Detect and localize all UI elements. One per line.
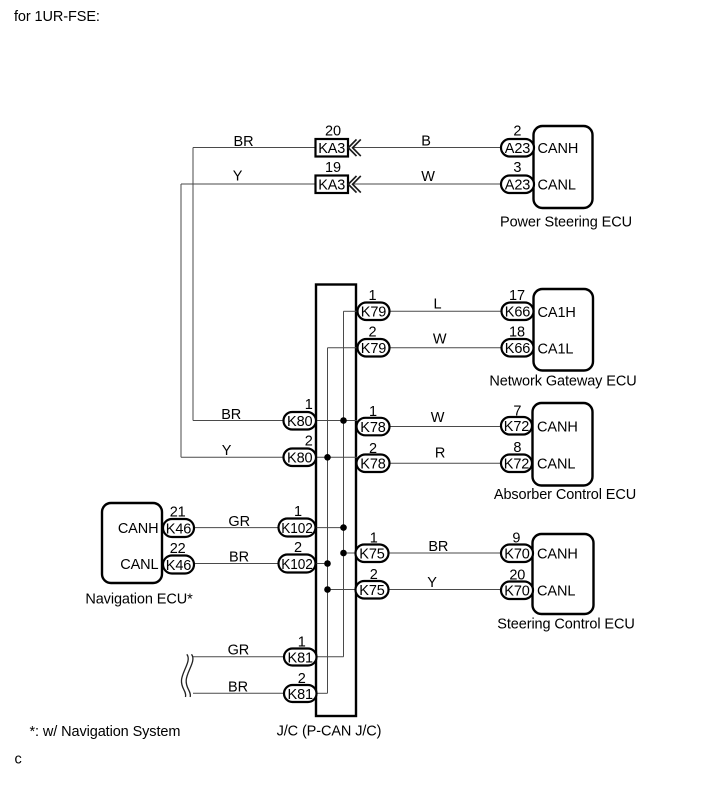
svg-text:K80: K80: [287, 451, 313, 467]
svg-text:W: W: [431, 410, 445, 426]
wire Y vertical drop (to J/C K80-2 row): [180, 184, 182, 457]
svg-text:7: 7: [513, 404, 521, 420]
svg-text:CA1L: CA1L: [538, 342, 574, 358]
connector K78 pin 1: [357, 418, 390, 436]
wire R (K78-2 to K72-8): [390, 462, 502, 464]
connector K78 pin 2: [357, 455, 390, 473]
svg-text:K66: K66: [505, 341, 531, 357]
pin number 1 above K79: [369, 288, 377, 304]
svg-text:2: 2: [370, 567, 378, 583]
svg-text:Y: Y: [427, 575, 437, 591]
svg-text:K66: K66: [505, 305, 531, 321]
svg-text:BR: BR: [221, 407, 241, 423]
svg-text:22: 22: [170, 541, 186, 557]
svg-text:2: 2: [294, 540, 302, 556]
svg-text:K70: K70: [504, 584, 530, 600]
pin label CANL (Power Steering ECU): [538, 178, 576, 194]
caption Steering Control ECU: [497, 616, 634, 632]
pin number 1 above K81: [298, 635, 306, 651]
wire color label B (to A23-2): [421, 134, 431, 150]
pin number 2 above K79: [369, 325, 377, 341]
svg-text:1: 1: [298, 635, 306, 651]
wire color label BR (to K102-2): [229, 550, 249, 566]
svg-text:3: 3: [513, 160, 521, 176]
wire color label Y (to K80-2): [222, 443, 232, 459]
svg-text:CANL: CANL: [537, 584, 575, 600]
wire color label BR (top left): [234, 134, 254, 150]
Power Steering ECU box: [534, 126, 593, 208]
CANH bus bar inside J/C: [343, 311, 345, 657]
caption Power Steering ECU: [500, 214, 632, 230]
svg-text:Steering Control ECU: Steering Control ECU: [497, 616, 634, 632]
svg-text:GR: GR: [228, 514, 250, 530]
pin number 20 above KA3: [325, 124, 341, 140]
svg-text:for 1UR-FSE:: for 1UR-FSE:: [14, 9, 100, 25]
pin number 20 above K70: [509, 568, 525, 584]
caption Network Gateway ECU: [489, 373, 636, 389]
svg-text:1: 1: [369, 288, 377, 304]
svg-text:K80: K80: [287, 414, 313, 430]
svg-text:2: 2: [298, 671, 306, 687]
connector K72 pin 7: [501, 417, 532, 435]
pin number 17 above K66: [509, 288, 525, 304]
connector K46 pin 21: [163, 519, 194, 537]
wire color label Y (to K70-20): [427, 575, 437, 591]
Network Gateway ECU box: [534, 289, 594, 371]
wire internal K79-1 stub to CANH bus: [344, 310, 358, 312]
svg-text:21: 21: [170, 505, 186, 521]
shield (twisted pair) symbol after KA3 pin 19: [348, 176, 361, 193]
svg-text:BR: BR: [229, 550, 249, 566]
pin label CA1L (Network Gateway ECU): [538, 342, 574, 358]
svg-text:K72: K72: [504, 419, 530, 435]
svg-text:Navigation ECU*: Navigation ECU*: [85, 591, 193, 607]
svg-text:R: R: [435, 446, 445, 462]
svg-text:BR: BR: [428, 539, 448, 555]
svg-text:2: 2: [369, 441, 377, 457]
CANL bus bar inside J/C: [327, 348, 329, 694]
svg-text:Absorber Control ECU: Absorber Control ECU: [494, 487, 636, 503]
wire color label BR (to K70-9): [428, 539, 448, 555]
connector A23 pin 3: [501, 176, 534, 194]
wire Y (KA3 pin19 to corner): [181, 183, 316, 185]
svg-text:CANL: CANL: [538, 178, 576, 194]
wire internal K75-2 stub from CANL bus: [328, 589, 357, 591]
footnote *: w/ Navigation System: [30, 724, 181, 740]
caption Navigation ECU*: [85, 591, 193, 607]
caption J/C (P-CAN J/C): [277, 724, 382, 740]
svg-text:18: 18: [509, 325, 525, 341]
caption Absorber Control ECU: [494, 487, 636, 503]
wire internal K80-1 to K78-1 through J/C: [316, 420, 357, 422]
pin number 2 above K102: [294, 540, 302, 556]
connector K66 pin 18: [502, 339, 534, 357]
wire color label BR (to K80-1): [221, 407, 241, 423]
wire color label BR (to K81-2): [228, 679, 248, 695]
pin number 1 above K80: [305, 397, 313, 413]
pin number 19 above KA3: [325, 160, 341, 176]
wire W (J/C K79-2 to K66-18): [390, 347, 502, 349]
svg-text:Y: Y: [233, 169, 243, 185]
svg-text:2: 2: [305, 434, 313, 450]
wire W (K78-1 to K72-7): [390, 426, 502, 428]
connector K79 pin 1: [358, 303, 390, 321]
connector K81 pin 2: [284, 685, 317, 703]
pin number 2 above K78: [369, 441, 377, 457]
pin number 22 above K46: [170, 541, 186, 557]
wire BR (KA3 pin20 to corner): [193, 147, 316, 149]
svg-text:KA3: KA3: [318, 178, 345, 194]
svg-text:CANH: CANH: [118, 521, 159, 537]
connector K66 pin 17: [502, 303, 534, 321]
svg-text:K78: K78: [360, 457, 386, 473]
wire internal K80-2 to K78-2 through J/C: [316, 456, 357, 458]
svg-text:A23: A23: [505, 141, 531, 157]
svg-text:*: w/ Navigation System: *: w/ Navigation System: [30, 724, 181, 740]
svg-text:K81: K81: [288, 687, 314, 703]
pin label CANH (Power Steering ECU): [538, 141, 579, 157]
pin number 2 above K80: [305, 434, 313, 450]
svg-text:BR: BR: [228, 679, 248, 695]
wire internal K79-2 stub to CANL bus: [328, 347, 358, 349]
pin number 1 above K78: [369, 404, 377, 420]
svg-text:A23: A23: [505, 178, 531, 194]
wire break symbol (continuation squiggle) left of K81: [181, 654, 193, 697]
pin number 2 above K75: [370, 567, 378, 583]
svg-text:K72: K72: [504, 457, 530, 473]
junction dot CANL bus at K102-2 row: [324, 560, 331, 567]
pin label CANL (Steering Control ECU): [537, 584, 575, 600]
pin number 21 above K46: [170, 505, 186, 521]
Absorber Control ECU box: [533, 403, 593, 486]
pin number 3 above A23: [513, 160, 521, 176]
svg-text:1: 1: [369, 404, 377, 420]
svg-text:K70: K70: [504, 547, 530, 563]
svg-text:1: 1: [370, 531, 378, 547]
wire GR (break to K81-1): [193, 656, 284, 658]
connector K75 pin 1: [356, 545, 389, 563]
svg-text:J/C (P-CAN J/C): J/C (P-CAN J/C): [277, 724, 382, 740]
wire internal K81-1 stub to CANH bus: [317, 656, 344, 658]
wire BR vertical drop (to J/C K80-1 row): [192, 148, 194, 421]
svg-text:20: 20: [325, 124, 341, 140]
svg-text:KA3: KA3: [318, 141, 345, 157]
pin number 2 above K81: [298, 671, 306, 687]
wire internal K102-1 stub to CANH bus: [316, 527, 344, 529]
connector K81 pin 1: [284, 649, 317, 667]
pin label CANL (Absorber Control ECU): [537, 457, 575, 473]
wire GR (K46-21 to K102-1): [194, 527, 279, 529]
pin number 2 above A23: [513, 124, 521, 140]
svg-text:Power Steering ECU: Power Steering ECU: [500, 214, 632, 230]
junction dot CANL bus at K75-2 row: [324, 586, 331, 593]
svg-text:20: 20: [509, 568, 525, 584]
wire BR (K75-1 to K70-9): [389, 552, 502, 554]
pin number 7 above K72: [513, 404, 521, 420]
wire color label GR (to K102-1): [228, 514, 250, 530]
svg-text:K81: K81: [288, 650, 314, 666]
pin number 1 above K75: [370, 531, 378, 547]
wire internal K75-1 stub from CANH bus: [344, 552, 357, 554]
wire Y (K75-2 to K70-20): [389, 589, 502, 591]
wire BR (break to K81-2): [193, 692, 284, 694]
pin label CANH (Absorber Control ECU): [537, 420, 578, 436]
svg-text:1: 1: [305, 397, 313, 413]
connector K102 pin 2: [279, 555, 316, 573]
connector KA3 (pin 19): [316, 176, 349, 194]
svg-text:B: B: [421, 134, 431, 150]
wire W (KA3 pin19 shield to A23 pin3): [353, 183, 501, 185]
svg-text:Network Gateway ECU: Network Gateway ECU: [489, 373, 636, 389]
svg-text:CANH: CANH: [538, 141, 579, 157]
svg-text:c: c: [15, 752, 22, 768]
title: for 1UR-FSE:: [14, 9, 100, 25]
junction dot CANH bus at K102-1 row: [340, 524, 347, 531]
svg-text:17: 17: [509, 288, 525, 304]
Steering Control ECU box: [533, 534, 594, 614]
svg-text:19: 19: [325, 160, 341, 176]
connector K80 pin 1: [284, 412, 317, 430]
svg-text:K75: K75: [359, 583, 385, 599]
wire Y (corner to K80-2): [181, 456, 284, 458]
svg-text:9: 9: [512, 531, 520, 547]
svg-text:K102: K102: [281, 521, 313, 537]
wire color label L (to K66-17): [434, 297, 442, 313]
svg-text:2: 2: [513, 124, 521, 140]
svg-text:K78: K78: [360, 420, 386, 436]
pin number 8 above K72: [513, 440, 521, 456]
junction dot CANL bus at K80-2/K78-2 row: [324, 454, 331, 461]
page marker c: [15, 752, 22, 768]
svg-text:K75: K75: [359, 547, 385, 563]
svg-text:L: L: [434, 297, 442, 313]
svg-text:GR: GR: [228, 643, 250, 659]
svg-text:2: 2: [369, 325, 377, 341]
connector K79 pin 2: [358, 339, 390, 357]
connector K72 pin 8: [501, 455, 532, 473]
connector K102 pin 1: [279, 519, 316, 537]
svg-text:K79: K79: [361, 341, 387, 357]
connector A23 pin 2: [501, 139, 534, 157]
connector KA3 (pin 20): [316, 139, 349, 157]
wire color label W (to K66-18): [433, 331, 447, 347]
pin label CANL (Navigation ECU): [120, 557, 158, 573]
pin label CA1H (Network Gateway ECU): [538, 305, 576, 321]
wire internal K81-2 stub to CANL bus: [317, 692, 328, 694]
pin number 1 above K102: [294, 504, 302, 520]
svg-text:Y: Y: [222, 443, 232, 459]
wire color label W (to K72-7): [431, 410, 445, 426]
wire B (KA3 pin20 shield to A23 pin2): [353, 147, 501, 149]
svg-text:8: 8: [513, 440, 521, 456]
svg-text:CANL: CANL: [120, 557, 158, 573]
wire BR (K46-22 to K102-2): [194, 563, 279, 565]
svg-text:CANL: CANL: [537, 457, 575, 473]
shield (twisted pair) symbol after KA3 pin 20: [348, 139, 361, 156]
wire BR (corner to K80-1): [193, 420, 284, 422]
connector K75 pin 2: [356, 581, 389, 599]
connector K70 pin 9: [501, 545, 533, 563]
svg-text:1: 1: [294, 504, 302, 520]
junction dot CANH bus at K75-1 row: [340, 550, 347, 557]
junction connector J/C (P-CAN J/C) box: [316, 285, 356, 717]
connector K46 pin 22: [163, 556, 194, 574]
svg-text:CANH: CANH: [537, 420, 578, 436]
pin label CANH (Navigation ECU): [118, 521, 159, 537]
svg-text:K79: K79: [361, 305, 387, 321]
svg-text:W: W: [433, 331, 447, 347]
wire color label W (to A23-3): [421, 169, 435, 185]
connector K80 pin 2: [284, 449, 317, 467]
wire color label R (to K72-8): [435, 446, 445, 462]
svg-text:K46: K46: [166, 558, 192, 574]
svg-text:K102: K102: [281, 557, 313, 573]
svg-text:CANH: CANH: [537, 547, 578, 563]
svg-text:BR: BR: [234, 134, 254, 150]
pin number 9 above K70: [512, 531, 520, 547]
pin label CANH (Steering Control ECU): [537, 547, 578, 563]
wire L (J/C K79-1 to K66-17): [390, 310, 502, 312]
wire color label Y (second left): [233, 169, 243, 185]
svg-text:CA1H: CA1H: [538, 305, 576, 321]
junction dot CANH bus at K80-1/K78-1 row: [340, 417, 347, 424]
Navigation ECU box: [102, 503, 162, 583]
pin number 18 above K66: [509, 325, 525, 341]
wire internal K102-2 stub to CANL bus: [316, 563, 328, 565]
svg-text:K46: K46: [166, 521, 192, 537]
wire color label GR (to K81-1): [228, 643, 250, 659]
connector K70 pin 20: [501, 582, 533, 600]
svg-text:W: W: [421, 169, 435, 185]
